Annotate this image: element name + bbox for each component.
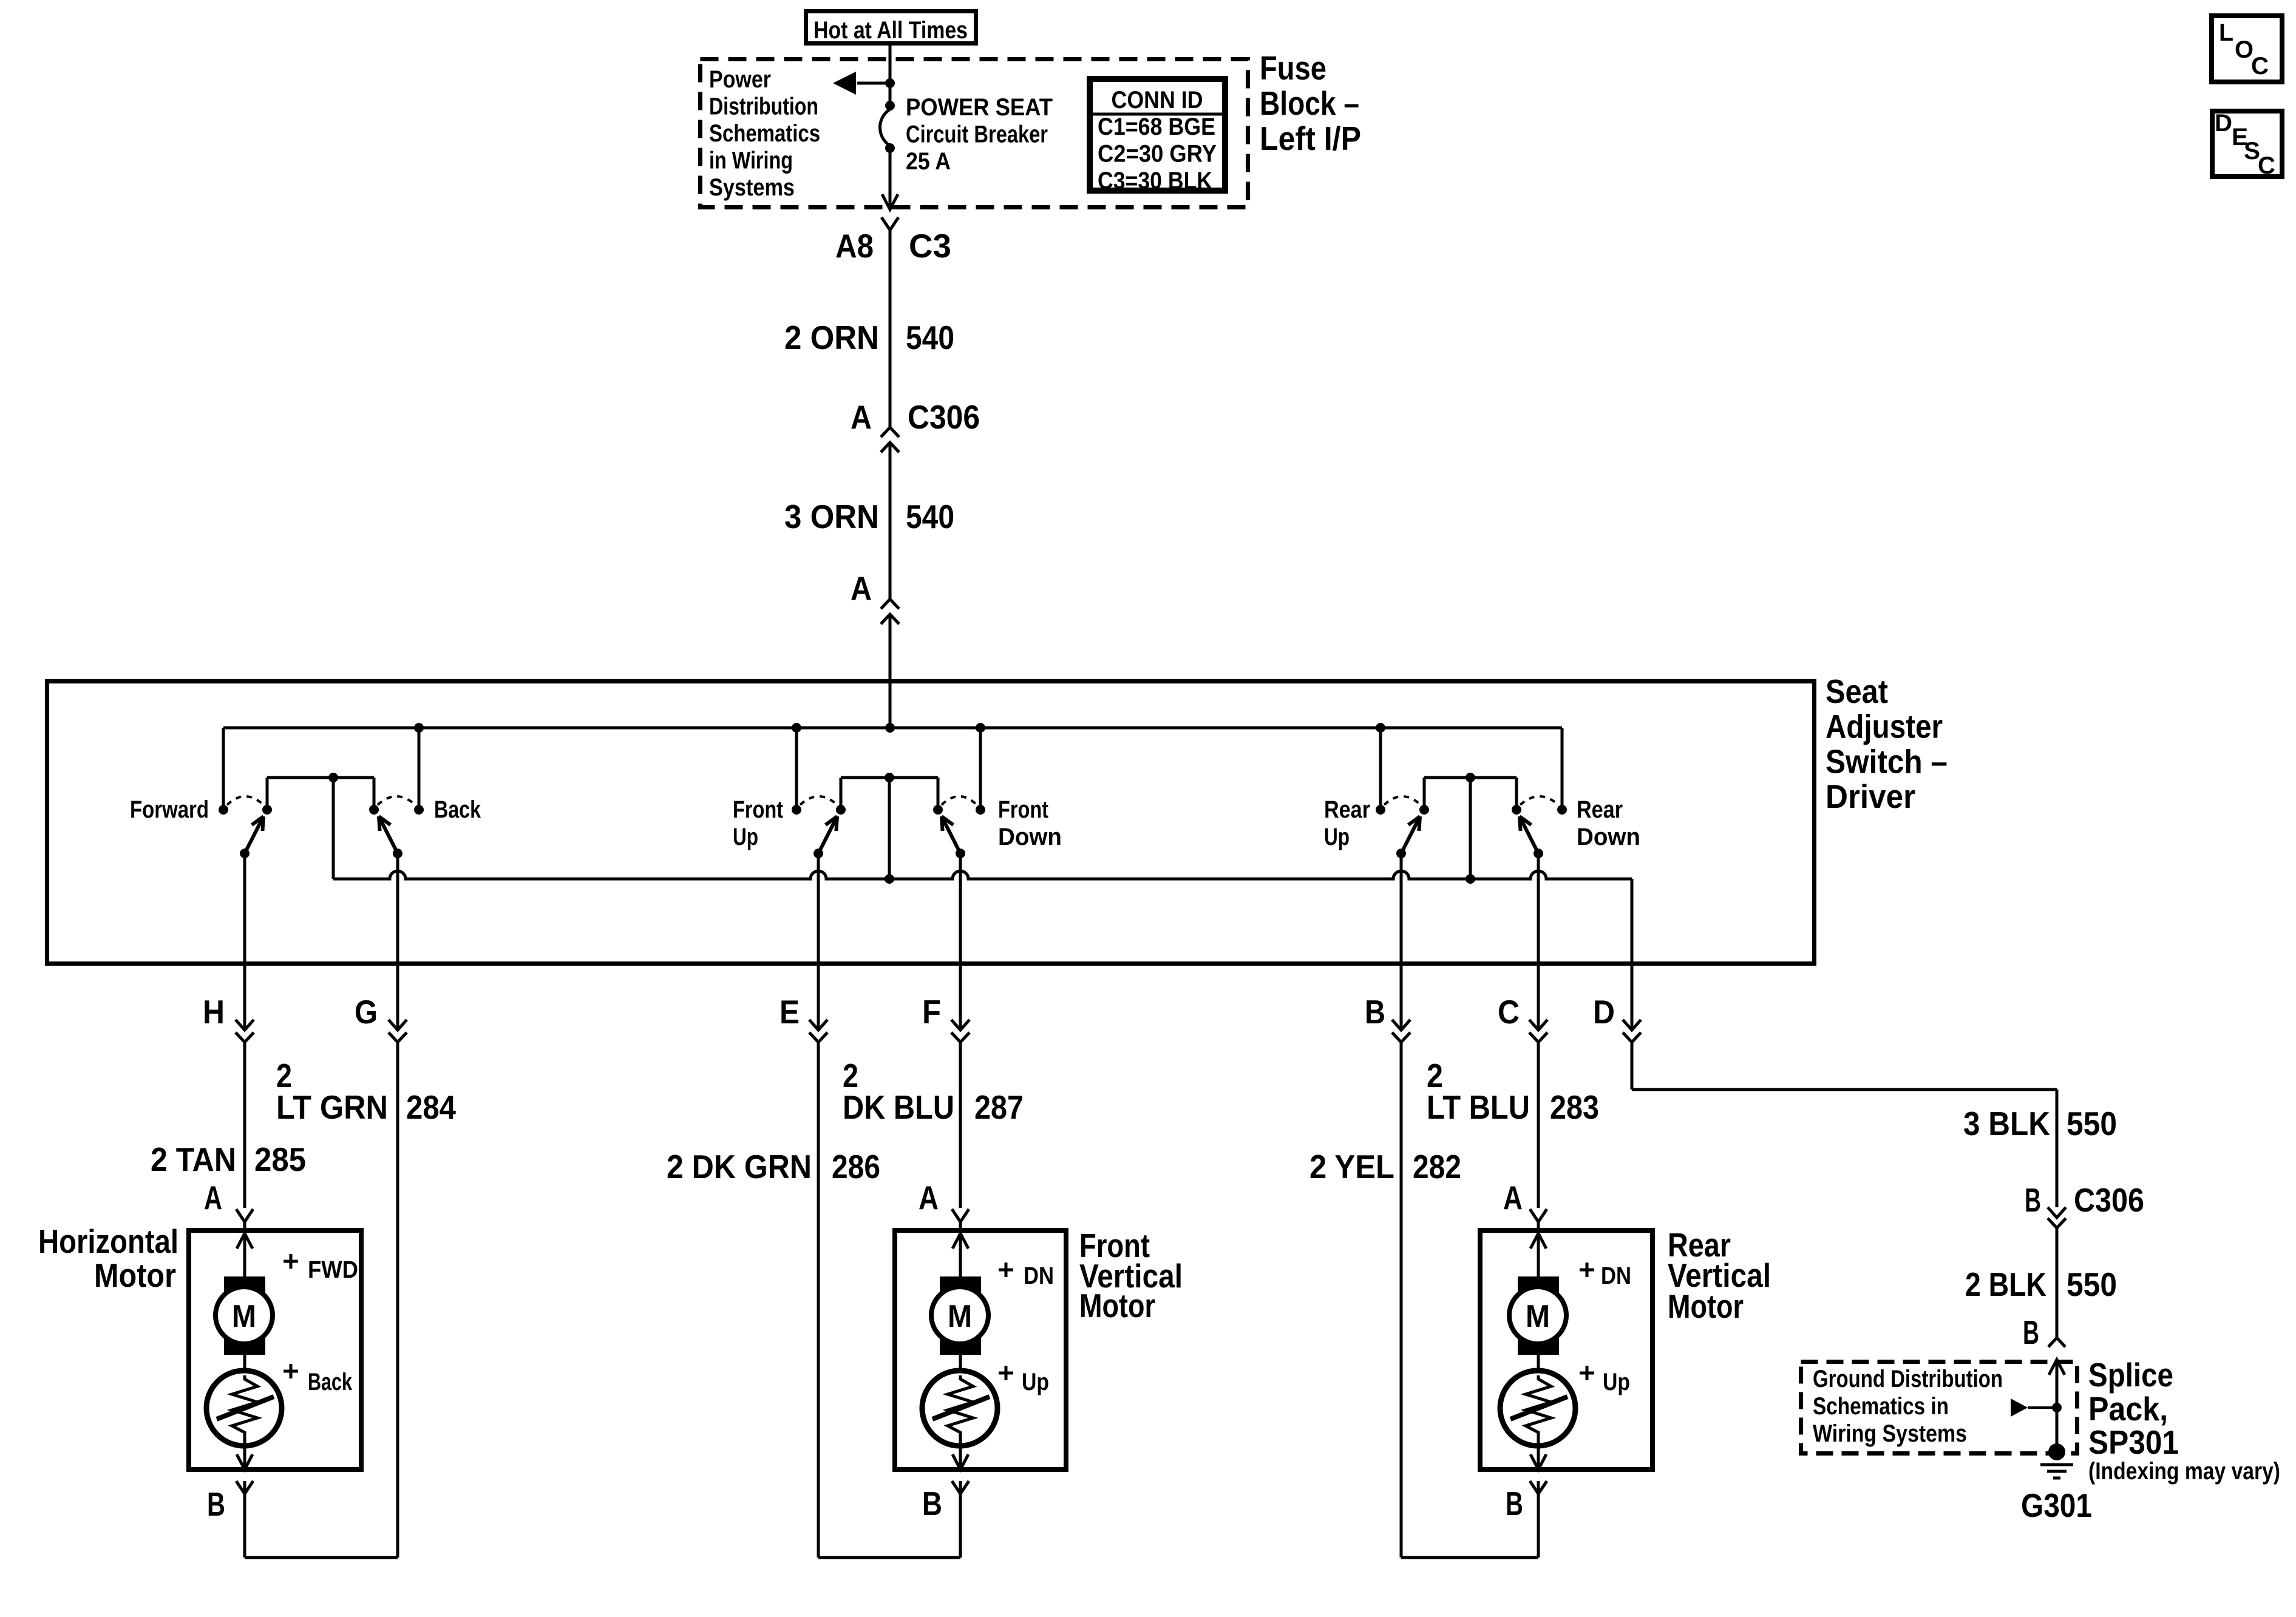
svg-text:Motor: Motor — [1668, 1287, 1744, 1325]
svg-text:Up: Up — [733, 824, 758, 850]
svg-text:2 BLK: 2 BLK — [1965, 1266, 2046, 1303]
svg-text:Rear: Rear — [1577, 796, 1623, 823]
svg-text:Distribution: Distribution — [709, 93, 818, 120]
svg-text:Front: Front — [998, 796, 1048, 823]
svg-text:Seat: Seat — [1826, 673, 1888, 710]
svg-text:Back: Back — [308, 1369, 353, 1395]
svg-text:C3=30 BLK: C3=30 BLK — [1098, 168, 1212, 194]
svg-text:Schematics in: Schematics in — [1813, 1393, 1949, 1420]
svg-text:287: 287 — [974, 1088, 1024, 1126]
svg-text:D: D — [2215, 110, 2232, 137]
svg-text:SP301: SP301 — [2088, 1423, 2179, 1461]
svg-text:3 BLK: 3 BLK — [1963, 1105, 2050, 1142]
svg-text:Motor: Motor — [94, 1256, 176, 1294]
svg-text:Down: Down — [998, 824, 1062, 850]
svg-text:Pack,: Pack, — [2088, 1390, 2168, 1428]
svg-text:Rear: Rear — [1324, 796, 1370, 823]
svg-text:A8: A8 — [835, 227, 874, 265]
svg-text:2 DK GRN: 2 DK GRN — [667, 1148, 812, 1185]
svg-text:FWD: FWD — [308, 1256, 358, 1283]
svg-text:LT BLU: LT BLU — [1427, 1088, 1530, 1126]
svg-text:Horizontal: Horizontal — [38, 1222, 178, 1260]
svg-text:E: E — [779, 993, 800, 1031]
svg-text:B: B — [1365, 993, 1385, 1031]
svg-text:L: L — [2219, 19, 2233, 46]
svg-text:C1=68 BGE: C1=68 BGE — [1098, 114, 1215, 140]
svg-text:Up: Up — [1324, 824, 1350, 850]
svg-text:D: D — [1593, 993, 1615, 1031]
svg-text:Circuit Breaker: Circuit Breaker — [906, 121, 1048, 148]
svg-text:550: 550 — [2067, 1105, 2117, 1142]
svg-text:F: F — [922, 993, 941, 1031]
svg-text:B: B — [2023, 1314, 2039, 1351]
svg-text:Driver: Driver — [1826, 778, 1915, 815]
svg-text:B: B — [2025, 1181, 2041, 1219]
svg-text:Left I/P: Left I/P — [1260, 120, 1361, 157]
svg-text:Down: Down — [1577, 824, 1640, 850]
svg-text:283: 283 — [1550, 1088, 1599, 1126]
svg-text:Motor: Motor — [1079, 1287, 1155, 1324]
svg-text:Back: Back — [434, 796, 481, 823]
svg-text:G: G — [355, 993, 378, 1031]
svg-text:LT GRN: LT GRN — [276, 1088, 388, 1126]
svg-text:A: A — [851, 398, 872, 436]
svg-text:550: 550 — [2067, 1266, 2117, 1303]
svg-text:25 A: 25 A — [906, 148, 951, 175]
svg-text:M: M — [232, 1299, 256, 1334]
svg-text:Forward: Forward — [130, 796, 209, 823]
svg-text:M: M — [948, 1299, 972, 1334]
svg-text:C: C — [2258, 152, 2275, 179]
svg-text:A: A — [204, 1179, 222, 1216]
svg-text:B: B — [922, 1485, 942, 1522]
svg-text:Adjuster: Adjuster — [1826, 708, 1943, 745]
svg-text:POWER SEAT: POWER SEAT — [906, 94, 1053, 121]
svg-text:H: H — [203, 993, 225, 1031]
svg-text:C: C — [2251, 53, 2269, 80]
svg-text:A: A — [1503, 1179, 1523, 1216]
svg-text:540: 540 — [906, 498, 954, 535]
svg-text:C: C — [1498, 993, 1520, 1031]
svg-text:(Indexing may vary): (Indexing may vary) — [2088, 1458, 2280, 1485]
svg-text:Ground Distribution: Ground Distribution — [1813, 1366, 2003, 1392]
svg-text:3 ORN: 3 ORN — [784, 498, 879, 535]
svg-text:C306: C306 — [908, 398, 980, 436]
svg-text:Schematics: Schematics — [709, 120, 820, 147]
svg-text:DK BLU: DK BLU — [843, 1088, 954, 1126]
svg-text:286: 286 — [832, 1148, 880, 1185]
svg-text:Block –: Block – — [1260, 84, 1359, 122]
svg-text:Splice: Splice — [2088, 1356, 2173, 1394]
svg-text:A: A — [851, 569, 872, 607]
svg-text:Front: Front — [733, 796, 783, 823]
svg-text:284: 284 — [406, 1088, 456, 1126]
svg-text:540: 540 — [906, 319, 954, 356]
svg-text:Switch –: Switch – — [1826, 742, 1948, 780]
svg-text:M: M — [1526, 1299, 1550, 1334]
svg-text:Hot at All Times: Hot at All Times — [813, 17, 968, 44]
svg-text:B: B — [207, 1485, 225, 1523]
svg-text:285: 285 — [254, 1141, 306, 1178]
svg-text:Systems: Systems — [709, 174, 795, 201]
svg-text:Up: Up — [1022, 1369, 1049, 1395]
svg-text:C3: C3 — [909, 227, 951, 265]
svg-text:in Wiring: in Wiring — [709, 147, 793, 174]
svg-text:Power: Power — [709, 66, 771, 93]
svg-text:Fuse: Fuse — [1260, 49, 1326, 87]
svg-text:CONN ID: CONN ID — [1112, 87, 1203, 114]
svg-text:Up: Up — [1603, 1369, 1630, 1395]
svg-text:A: A — [919, 1179, 939, 1216]
svg-text:C2=30 GRY: C2=30 GRY — [1098, 141, 1217, 168]
svg-text:DN: DN — [1601, 1263, 1631, 1289]
svg-text:2 YEL: 2 YEL — [1309, 1148, 1394, 1185]
svg-text:B: B — [1506, 1485, 1523, 1522]
svg-text:2 ORN: 2 ORN — [784, 319, 879, 356]
svg-text:Wiring Systems: Wiring Systems — [1813, 1420, 1967, 1447]
svg-text:2 TAN: 2 TAN — [151, 1141, 236, 1178]
svg-text:DN: DN — [1024, 1263, 1054, 1289]
svg-text:282: 282 — [1413, 1148, 1461, 1185]
svg-text:G301: G301 — [2021, 1486, 2092, 1524]
svg-text:C306: C306 — [2074, 1181, 2144, 1219]
